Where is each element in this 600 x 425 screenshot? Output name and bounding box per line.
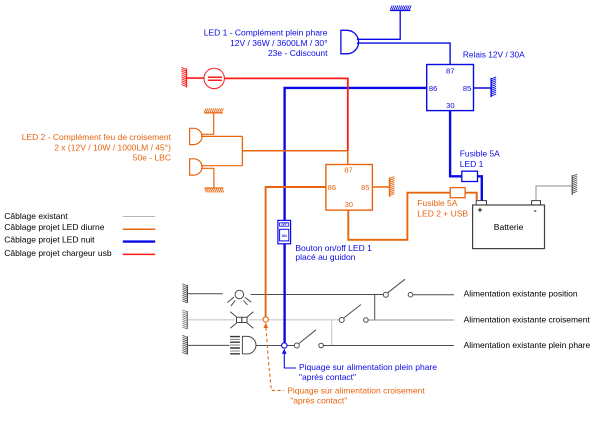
ground (orange, below lamp B) [205, 187, 224, 189]
lamp position (circle with rays) [235, 290, 244, 299]
svg-text:LED 2 - Complément feu de croi: LED 2 - Complément feu de croisement2 x … [22, 132, 172, 163]
node tap on plein phare line [282, 343, 287, 348]
wire relay1 pin 86 to on/off switch (LED nuit) [285, 88, 427, 220]
wire ground to usb outlet [187, 77, 204, 79]
legend line nuit [123, 240, 155, 242]
wire fuse F2 to battery + [465, 193, 477, 201]
wire lamp A lower to bus [201, 135, 242, 137]
wire relay1 pin 30 to fuse F1 [450, 111, 462, 177]
svg-text:ON: ON [282, 234, 288, 238]
LED 2 lamp B [190, 159, 203, 175]
svg-text:+: + [478, 205, 483, 215]
ground (battery minus) [571, 175, 573, 195]
ground row1 position [186, 285, 188, 303]
wire relay2 pin 30 to fuse F2 [348, 193, 450, 240]
svg-text:Batterie: Batterie [494, 222, 524, 232]
bus wire between lamps [241, 136, 243, 165]
fuse F1 [462, 171, 478, 181]
wire lamp B upper to bus [201, 165, 242, 167]
link wire row2-row3 [331, 320, 333, 346]
wire row3 right [323, 345, 454, 347]
svg-text:OFF: OFF [281, 223, 287, 227]
ground (relay1 85) [490, 78, 492, 97]
ground row3 plein phare [186, 336, 188, 354]
svg-text:Alimentation existante croisem: Alimentation existante croisement [464, 315, 591, 325]
wire fuse F1 to battery + [478, 176, 482, 200]
svg-text:Câblage existantCâblage projet: Câblage existantCâblage projet LED diurn… [4, 211, 112, 258]
wire row1 right [413, 294, 454, 296]
wire row2 to switch [249, 319, 339, 321]
svg-text:Piquage sur alimentation crois: Piquage sur alimentation croisement"aprè… [287, 386, 425, 406]
wire battery minus to ground [536, 186, 572, 200]
svg-text:-: - [534, 205, 537, 215]
wire row3 left [188, 344, 230, 346]
fuse F2 [450, 188, 465, 198]
leader orange dashed callout [264, 323, 269, 328]
wire lamp A upper to ground [201, 113, 214, 134]
legend line chargeur usb [123, 253, 155, 255]
svg-text:Fusible 5ALED 2 + USB: Fusible 5ALED 2 + USB [417, 198, 468, 218]
switch S1 bouton on/off [278, 220, 291, 243]
switch row3 [294, 343, 299, 348]
legend line diurne [123, 228, 155, 230]
link wire row1-row2 [374, 295, 376, 320]
wire row2 right [368, 319, 454, 321]
legend line existant [123, 216, 155, 218]
lamp croisement (crossed boxes) [237, 317, 242, 322]
leader blue callout [282, 349, 287, 354]
ground (orange, above lamp A) [204, 112, 223, 114]
wire row3 to switch [256, 345, 294, 347]
wire row1 to switch [251, 294, 384, 296]
wire LED1 lower terminal to relay1 pin 87 [357, 43, 450, 64]
svg-text:87868530: 87868530 [429, 66, 471, 110]
node tap on croisement line [263, 317, 268, 322]
lamp plein phare (bars + D lens) [230, 337, 240, 354]
LED 2 lamp A [190, 128, 203, 144]
ground (relay2 85) [389, 178, 391, 197]
svg-text:Fusible 5ALED 1: Fusible 5ALED 1 [460, 149, 500, 169]
battery BT1 [473, 205, 545, 249]
svg-text:Alimentation existante plein p: Alimentation existante plein phare [464, 340, 591, 350]
wire row2 left [188, 319, 235, 321]
wire lamp B lower to ground [201, 168, 214, 187]
svg-text:LED 1 - Complément plein phare: LED 1 - Complément plein phare12V / 36W … [204, 28, 328, 58]
svg-text:Bouton on/off LED 1placé au gu: Bouton on/off LED 1placé au guidon [295, 243, 372, 262]
wire LED1 upper terminal to ground [357, 11, 400, 40]
ground (red, usb) [186, 69, 188, 88]
relay U1 (Relais 12V/30A) [427, 65, 474, 111]
ground row2 croisement [186, 311, 188, 329]
relay U2 (orange) [326, 165, 373, 211]
switch row1 [383, 292, 388, 297]
wire relay2 pin 85 to ground [372, 186, 389, 188]
svg-text:87868530: 87868530 [328, 166, 370, 209]
wire row1 left [188, 293, 223, 295]
wire usb outlet to junction (chargeur usb) [225, 78, 348, 150]
svg-text:Relais 12V / 30A: Relais 12V / 30A [463, 49, 525, 59]
LED 1 lamp DL1 [341, 30, 359, 54]
wire relay1 pin 85 to ground [474, 87, 491, 89]
switch row2 [339, 318, 344, 323]
wire switch to plein-phare tap [283, 244, 285, 343]
wire relay2 pin 86 to croisement tap [266, 187, 326, 317]
usb outlet U3 (circle =) [204, 68, 224, 88]
svg-text:Alimentation existante positio: Alimentation existante position [464, 289, 578, 299]
wire bus to relay2 pin 87 junction [242, 151, 347, 165]
svg-text:Piquage sur alimentation plein: Piquage sur alimentation plein phare"apr… [299, 362, 437, 382]
ground (blue, top) [390, 9, 410, 11]
